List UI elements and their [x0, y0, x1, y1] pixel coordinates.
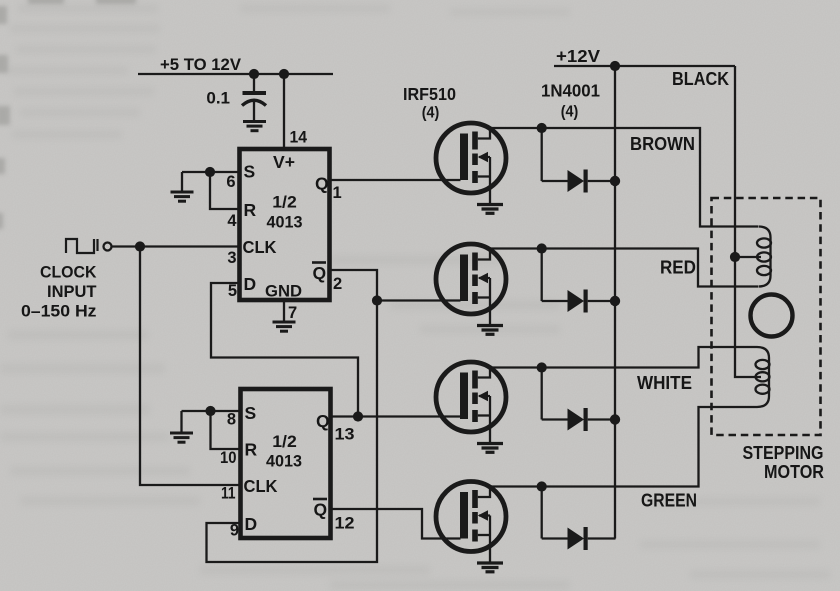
svg-text:CLOCK: CLOCK: [40, 264, 97, 282]
svg-text:V+: V+: [273, 152, 295, 172]
wire: IC1 pin 6 S: [182, 171, 240, 173]
svg-text:D: D: [244, 274, 257, 294]
svg-text:R: R: [245, 440, 258, 460]
ground (capacitor): [243, 122, 266, 131]
clock waveform symbol: [66, 239, 98, 253]
svg-text:BLACK: BLACK: [672, 69, 729, 89]
wire: clock down to IC2 pin 11: [140, 247, 241, 486]
svg-text:S: S: [245, 403, 257, 423]
wire: IC2 pin 10 R: [211, 411, 241, 449]
svg-text:WHITE: WHITE: [637, 373, 692, 393]
svg-text:GREEN: GREEN: [641, 491, 697, 511]
svg-text:7: 7: [288, 304, 297, 322]
svg-text:BROWN: BROWN: [630, 134, 695, 154]
svg-text:1: 1: [333, 184, 342, 202]
svg-text:4013: 4013: [267, 214, 303, 232]
junction: diode D2 1N4001 cathode to +12V rail: [610, 296, 620, 306]
transistor Q2 IRF510: [436, 244, 506, 326]
junction: BLACK / coil A tap: [730, 252, 740, 262]
svg-text:Q: Q: [315, 174, 329, 194]
wire GREEN: Q4 drain to coil B bottom: [490, 407, 757, 487]
svg-text:8: 8: [227, 411, 236, 429]
svg-text:RED: RED: [660, 258, 696, 278]
svg-text:0.1: 0.1: [206, 89, 230, 108]
inductor coil B (motor winding 2): [756, 347, 770, 407]
ground (IC1 set pin): [171, 192, 194, 201]
wire: +5 rail to IC1 pin 14: [283, 74, 285, 149]
svg-text:1/2: 1/2: [272, 194, 297, 212]
wire BLACK: +12V to motor common taps: [735, 66, 761, 377]
svg-text:MOTOR: MOTOR: [764, 462, 824, 482]
diode D1 1N4001: [542, 170, 616, 193]
junction: Q13 to IC1 D feedback: [353, 411, 363, 421]
svg-text:0–150 Hz: 0–150 Hz: [21, 303, 97, 321]
wire: D2 anode drop: [541, 249, 543, 302]
svg-text:+5 TO 12V: +5 TO 12V: [160, 55, 242, 74]
svg-text:2: 2: [333, 275, 342, 293]
transistor Q3 IRF510: [436, 362, 506, 444]
wire: IC1 pin 7 to ground: [283, 300, 285, 322]
ground (transistor Q1 IRF510 source): [477, 205, 503, 214]
wire: D3 anode drop: [541, 368, 543, 420]
wire: clock to IC1 pin 3 CLK: [112, 245, 240, 247]
wire: IC1 pin 5 D from IC2 Q: [211, 283, 358, 417]
svg-text:STEPPING: STEPPING: [743, 443, 824, 463]
junction: rail / C1: [249, 69, 259, 79]
junction: diode D3 1N4001 cathode to +12V rail: [610, 414, 620, 424]
wire: D1 anode drop: [541, 128, 543, 181]
svg-text:4013: 4013: [266, 453, 302, 471]
svg-text:(4): (4): [561, 104, 579, 121]
svg-text:S: S: [244, 162, 256, 182]
svg-text:3: 3: [227, 249, 236, 267]
capacitor 0.1: [242, 74, 266, 121]
wire: IC1 pin 4 R: [210, 172, 240, 209]
wire: IC2 pin 12 Q-bar to Q4 gate: [331, 509, 461, 539]
svg-text:(4): (4): [422, 105, 440, 122]
svg-text:GND: GND: [265, 282, 302, 301]
svg-text:10: 10: [220, 449, 237, 467]
wire: IC1 pin 2 Q-bar to Q2 gate and IC2 D loop: [207, 270, 378, 562]
junction: rail / pin 14: [279, 69, 289, 79]
svg-text:14: 14: [290, 129, 308, 147]
svg-text:INPUT: INPUT: [47, 283, 97, 301]
transistor Q4 IRF510: [436, 482, 506, 564]
svg-text:12: 12: [335, 515, 355, 533]
ground (IC2 set pin): [170, 433, 193, 442]
diode D2 1N4001: [542, 290, 616, 313]
flip-flop IC2 1/2 4013: [241, 389, 331, 538]
junction: diode D1 1N4001 cathode to +12V rail: [610, 176, 620, 186]
junction: Q4 drain / D4: [537, 481, 547, 491]
wire: coil A centre tap: [735, 256, 761, 258]
ground (IC1 pin 7): [273, 322, 296, 331]
motor rotor circle: [751, 295, 793, 337]
svg-text:Q: Q: [314, 500, 328, 520]
junction: Q1 drain / D1: [537, 123, 547, 133]
inductor coil A (motor winding 1): [757, 227, 771, 287]
svg-text:6: 6: [226, 173, 235, 191]
wire: IC1 pin 1 Q to Q1 gate: [330, 179, 461, 181]
wire WHITE: Q3 drain to coil B top: [490, 347, 757, 368]
junction: Q3 drain / D3: [537, 362, 547, 372]
svg-text:5: 5: [228, 282, 237, 300]
ground (transistor Q4 IRF510 source): [477, 563, 503, 572]
wire RED: Q2 drain to coil A bottom: [490, 249, 758, 287]
svg-text:Q: Q: [313, 263, 327, 283]
junction: clock node: [135, 241, 145, 251]
svg-text:1/2: 1/2: [272, 433, 297, 451]
wire BROWN: Q1 drain to coil A top: [490, 128, 758, 227]
svg-text:CLK: CLK: [243, 237, 277, 257]
svg-text:9: 9: [230, 522, 239, 540]
svg-text:1N4001: 1N4001: [541, 81, 600, 101]
svg-text:4: 4: [227, 212, 237, 230]
clock input terminal: [104, 243, 112, 251]
svg-text:R: R: [244, 200, 257, 220]
svg-text:11: 11: [221, 485, 236, 503]
junction: S/R tie IC2: [205, 406, 215, 416]
wire: IC2 pin 13 Q to Q3 gate: [331, 415, 461, 417]
svg-text:D: D: [245, 514, 258, 534]
svg-text:+12V: +12V: [556, 46, 600, 66]
flip-flop IC1 1/2 4013: [240, 149, 330, 300]
+5 TO 12V supply rail: [138, 73, 333, 75]
transistor Q1 IRF510: [436, 123, 506, 205]
wire: D4 anode drop: [541, 487, 543, 539]
diode D4 1N4001: [542, 527, 616, 550]
junction: pin2 net to Q2 gate: [372, 295, 382, 305]
ground (transistor Q3 IRF510 source): [477, 444, 503, 453]
junction: S/R tie IC1: [205, 167, 215, 177]
diode D3 1N4001: [542, 408, 616, 431]
svg-text:Q: Q: [316, 411, 330, 431]
svg-text:IRF510: IRF510: [403, 84, 456, 104]
wire: IC2 pin 8 S: [182, 410, 241, 412]
wire: +12V vertical rail: [614, 66, 616, 539]
junction: Q2 drain / D2: [537, 243, 547, 253]
svg-text:13: 13: [335, 426, 355, 444]
stepping motor dashed outline: [712, 198, 821, 435]
ground (transistor Q2 IRF510 source): [477, 326, 503, 335]
svg-text:CLK: CLK: [244, 476, 278, 496]
junction: +12V rail top: [610, 61, 620, 71]
